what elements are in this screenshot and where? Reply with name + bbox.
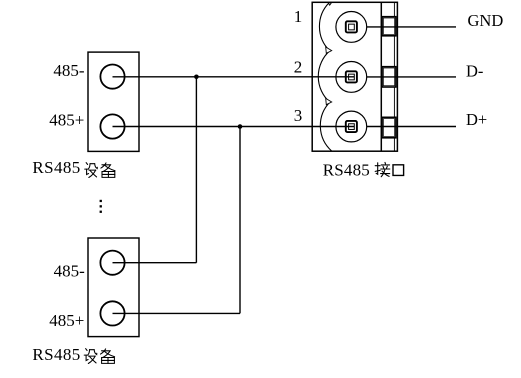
wire: device1 485+ to connector pin 3 — [113, 126, 355, 128]
connector inner vertical wall — [380, 2, 382, 151]
wire: pin2 to D- label — [367, 76, 456, 78]
connector thin inner vertical line — [393, 2, 395, 151]
scallop profile arcs — [318, 3, 332, 152]
svg-text:RS485: RS485 — [32, 345, 80, 364]
terminal circle 485+ of device 1 — [100, 114, 124, 138]
svg-text:RS485: RS485 — [32, 158, 80, 177]
terminal circle 485- of device 2 — [100, 251, 124, 275]
screw terminal 1 — [336, 12, 367, 43]
terminal circle 485+ of device 2 — [100, 301, 124, 325]
cusp tick 1 — [326, 47, 332, 53]
ellipsis (more devices) — [100, 200, 102, 213]
connector body (RS485 interface) — [312, 2, 397, 151]
junction J1 — [194, 75, 199, 80]
caption RS485 设备 (device 2) — [32, 345, 114, 364]
svg-text:RS485: RS485 — [323, 161, 370, 180]
svg-text:485-: 485- — [53, 61, 85, 80]
caption RS485 设备 (device 1) — [32, 158, 115, 177]
wire: vertical bus from J2 — [239, 127, 241, 314]
device box 1 (upper RS485 device) — [88, 52, 139, 151]
caption RS485 接口 (connector) — [323, 161, 404, 180]
wire: device2 485+ to bus B — [113, 312, 241, 314]
cusp tick 2 — [326, 98, 332, 104]
cusp tick top — [328, 3, 331, 5]
svg-text:2: 2 — [294, 58, 303, 77]
wire: vertical bus from J1 — [195, 77, 197, 263]
wire: device1 485- to connector pin 2 — [113, 76, 355, 78]
junction J2 — [238, 124, 243, 129]
svg-text:485-: 485- — [54, 261, 86, 280]
clamp contact 3 — [382, 117, 396, 138]
svg-text:D-: D- — [466, 61, 483, 80]
clamp contact 2 — [382, 67, 396, 87]
device box 2 (lower RS485 device) — [88, 238, 139, 337]
svg-text:3: 3 — [294, 106, 303, 125]
svg-text:1: 1 — [294, 7, 303, 26]
svg-text:485+: 485+ — [49, 311, 84, 330]
svg-text:D+: D+ — [466, 110, 487, 129]
terminal circle 485- of device 1 — [100, 65, 124, 89]
svg-text:485+: 485+ — [49, 111, 84, 130]
wire: device2 485- to bus A — [113, 262, 197, 264]
clamp contact 1 — [382, 17, 396, 36]
screw terminal 3 — [336, 111, 367, 142]
wire: pin1 to GND label — [367, 26, 456, 28]
screw terminal 2 — [336, 62, 367, 93]
wire: pin3 to D+ label — [367, 126, 456, 128]
svg-text:GND: GND — [468, 11, 504, 30]
